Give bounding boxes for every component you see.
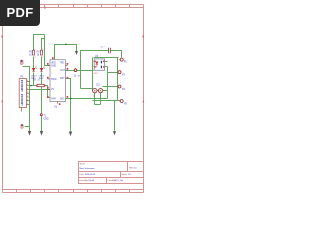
svg-text:2: 2 <box>34 57 36 59</box>
svg-text:D3: D3 <box>97 83 101 86</box>
svg-text:A: A <box>142 100 144 104</box>
svg-text:P5: P5 <box>124 103 128 105</box>
svg-text:4: 4 <box>27 92 28 94</box>
svg-text:2023-03-28: 2023-03-28 <box>85 174 96 176</box>
svg-text:GND: GND <box>51 66 56 68</box>
svg-text:R3: R3 <box>33 80 37 82</box>
svg-text:U1: U1 <box>54 106 58 109</box>
svg-text:1k: 1k <box>37 54 40 57</box>
svg-text:THR: THR <box>51 99 56 101</box>
svg-text:P4: P4 <box>122 89 126 91</box>
svg-text:DrawnBy:: DrawnBy: <box>80 180 89 182</box>
svg-text:3: 3 <box>44 6 46 10</box>
svg-text:OUT: OUT <box>60 70 65 72</box>
svg-text:HDR1X4: HDR1X4 <box>20 79 24 91</box>
svg-text:TRIG: TRIG <box>51 79 57 81</box>
svg-text:2: 2 <box>27 84 28 86</box>
svg-text:VDD: VDD <box>51 62 56 64</box>
svg-text:817: 817 <box>94 73 98 75</box>
svg-text:GND: GND <box>44 118 49 120</box>
svg-text:J2: J2 <box>74 74 77 77</box>
svg-text:P2: P2 <box>124 61 128 63</box>
svg-text:P3: P3 <box>122 75 126 77</box>
svg-text:2.0: 2.0 <box>134 168 138 170</box>
svg-text:New Schematic: New Schematic <box>80 167 96 170</box>
svg-text:DIS: DIS <box>60 99 64 101</box>
svg-text:TITLE:: TITLE: <box>80 163 86 165</box>
svg-text:T1: T1 <box>44 115 47 117</box>
svg-text:NS-03: NS-03 <box>89 180 96 182</box>
svg-text:7: 7 <box>27 103 28 105</box>
svg-text:RST: RST <box>60 78 65 80</box>
svg-text:B: B <box>1 35 3 39</box>
svg-text:B: B <box>142 35 144 39</box>
svg-text:5: 5 <box>27 96 28 98</box>
svg-text:HDR1X4: HDR1X4 <box>20 93 24 105</box>
svg-text:A: A <box>1 100 3 104</box>
svg-text:1/1: 1/1 <box>128 174 132 176</box>
svg-text:1k: 1k <box>38 80 41 82</box>
svg-text:3: 3 <box>27 88 28 90</box>
svg-text:1: 1 <box>27 80 28 82</box>
svg-text:12: 12 <box>93 96 96 98</box>
svg-text:LED2: LED2 <box>39 75 45 77</box>
svg-text:UTIL_Rd: UTIL_Rd <box>115 180 123 182</box>
svg-text:Sheet:: Sheet: <box>122 173 128 176</box>
svg-text:TRG: TRG <box>60 62 65 64</box>
svg-text:P1: P1 <box>20 75 24 79</box>
svg-text:6: 6 <box>27 99 28 101</box>
svg-text:CV: CV <box>51 89 55 91</box>
svg-text:1k: 1k <box>29 54 32 57</box>
svg-text:+: + <box>104 46 106 48</box>
